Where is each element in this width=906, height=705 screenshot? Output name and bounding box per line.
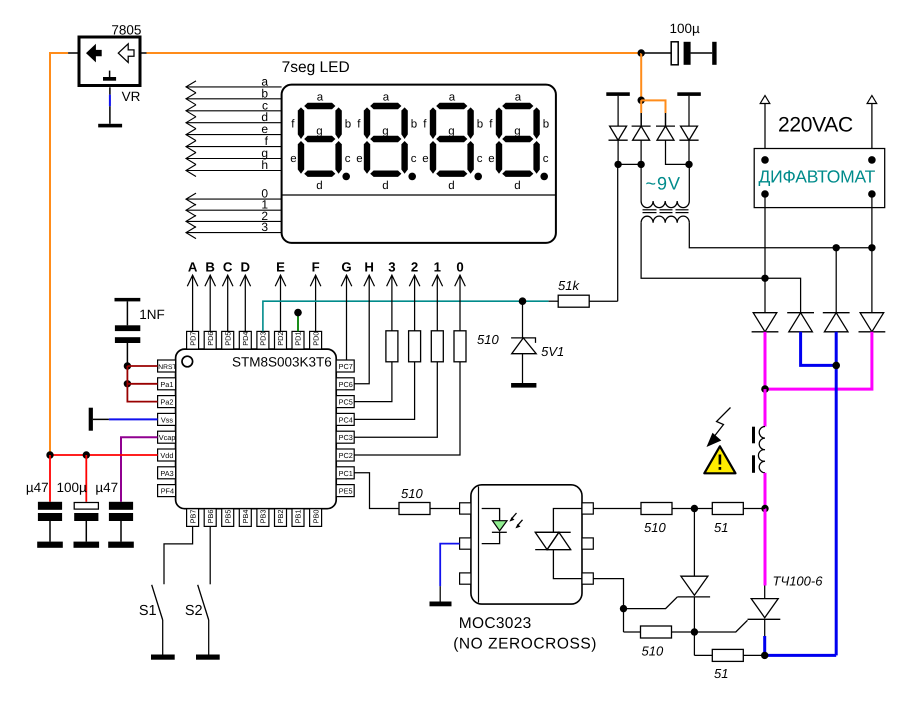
ground below S2 bbox=[196, 655, 220, 660]
wire: Vdd red rail bbox=[50, 454, 158, 456]
node: Vdd junction at C2 bbox=[46, 451, 53, 458]
svg-text:1: 1 bbox=[434, 260, 441, 275]
svg-text:100µ: 100µ bbox=[670, 21, 701, 36]
svg-text:51: 51 bbox=[714, 520, 728, 535]
rail terminal bar above D1 bbox=[606, 92, 630, 96]
node: blue junction bbox=[832, 362, 840, 370]
resistor R4 510 (net 0) bbox=[354, 275, 466, 455]
svg-text:PB0: PB0 bbox=[311, 510, 320, 524]
wire: orange VR output rail bbox=[140, 52, 641, 54]
svg-text:PB7: PB7 bbox=[188, 510, 197, 524]
capacitor C1 100u bbox=[641, 21, 712, 65]
U2 pin 4 bbox=[582, 573, 593, 584]
svg-text:S1: S1 bbox=[139, 603, 157, 619]
wire: U2 pin4 to VS1 gate node bbox=[593, 579, 623, 609]
node: orange junction above bridge bbox=[638, 97, 645, 104]
svg-text:F: F bbox=[312, 260, 320, 275]
wire: green stub on PD1 bbox=[297, 313, 299, 332]
svg-text:A: A bbox=[188, 260, 198, 275]
svg-text:(NO ZEROCROSS): (NO ZEROCROSS) bbox=[453, 636, 597, 653]
svg-text:STM8S003K3T6: STM8S003K3T6 bbox=[232, 355, 332, 370]
wire: Vcap purple bbox=[121, 437, 158, 502]
svg-text:1NF: 1NF bbox=[139, 307, 165, 322]
svg-text:PD3: PD3 bbox=[259, 332, 268, 346]
wire: net H to PC6 bbox=[354, 275, 369, 384]
thyristor VS1 bbox=[624, 576, 711, 608]
zener diode D9 5V1 bbox=[511, 301, 564, 383]
display digit 4 bbox=[488, 92, 549, 192]
labels a-h on segment wires bbox=[261, 74, 268, 172]
voltage regulator VR 7805 bbox=[79, 23, 141, 105]
svg-text:E: E bbox=[276, 260, 285, 275]
svg-text:Vss: Vss bbox=[161, 415, 174, 424]
wires: nets A-F to PD pins bbox=[193, 275, 316, 331]
wire: VR ground with blue segment bbox=[109, 87, 111, 124]
display digit 2 bbox=[356, 92, 417, 192]
ground below D9 bbox=[511, 383, 536, 388]
U2 internal triac bbox=[535, 509, 582, 579]
U2 labels bbox=[453, 615, 597, 653]
node: VR output junction bbox=[638, 49, 645, 56]
U2 pin 6 bbox=[582, 503, 593, 514]
capacitor C5 1NF bbox=[115, 301, 165, 366]
U1 right pin labels bbox=[339, 362, 353, 496]
svg-text:PD2: PD2 bbox=[276, 332, 285, 346]
svg-text:51: 51 bbox=[714, 666, 728, 681]
ground below C3 bbox=[74, 542, 100, 548]
wire: magenta down to VS2 anode bbox=[763, 509, 766, 599]
capacitor C3 100u electrolytic bbox=[57, 455, 99, 542]
svg-text:H: H bbox=[364, 260, 374, 275]
rail terminal bar above C5 bbox=[115, 298, 141, 302]
svg-text:D: D bbox=[241, 260, 251, 275]
svg-text:PD4: PD4 bbox=[241, 332, 250, 346]
svg-text:Pa2: Pa2 bbox=[160, 398, 173, 407]
svg-text:h: h bbox=[261, 158, 268, 172]
node: R7-R8 junction bbox=[691, 505, 698, 512]
diode D2 bbox=[632, 126, 651, 140]
rail terminal bar right of C1 bbox=[712, 42, 716, 65]
rail terminal bar above D4 bbox=[677, 92, 701, 96]
diode D4 bbox=[679, 126, 698, 140]
node: bridge AC2 dot bbox=[685, 161, 692, 168]
svg-text:~9V: ~9V bbox=[646, 174, 682, 194]
diode D1 bbox=[609, 126, 628, 140]
svg-text:ДИФАВТОМАТ: ДИФАВТОМАТ bbox=[759, 167, 876, 187]
wire: PB6 to S2 bbox=[209, 526, 211, 584]
ground below C2 bbox=[37, 542, 63, 548]
wire: bar to D4 bbox=[688, 96, 690, 126]
resistor R7 510 bbox=[641, 503, 694, 536]
circuit breaker box DIFAVTOMAT bbox=[754, 149, 885, 208]
svg-text:PB1: PB1 bbox=[294, 510, 303, 524]
wire: AC2 to transformer bbox=[688, 164, 690, 201]
switch S2 bbox=[185, 585, 209, 655]
U2 pin 2 bbox=[460, 538, 471, 549]
resistor R8 51 bbox=[694, 503, 765, 536]
capacitor C4 u47 bbox=[95, 480, 133, 542]
resistor R1 510 (net 3) bbox=[354, 275, 398, 401]
svg-text:B: B bbox=[205, 260, 215, 275]
wire: magenta D5 down bbox=[764, 332, 767, 389]
wire: T1 primary right down bbox=[689, 223, 872, 248]
svg-text:PD0: PD0 bbox=[311, 332, 320, 346]
node: magenta junction bbox=[761, 385, 769, 393]
display digit 3 bbox=[422, 92, 483, 192]
svg-text:PC3: PC3 bbox=[339, 433, 353, 442]
svg-text:510: 510 bbox=[401, 486, 423, 501]
wire: magenta to inductor bbox=[764, 389, 767, 426]
svg-text:PD1: PD1 bbox=[294, 332, 303, 346]
wire: L to D5 bbox=[764, 278, 766, 312]
node: Pa1 junction bbox=[124, 380, 131, 387]
U2 pin 3 bbox=[460, 573, 471, 584]
node: PD1 test point dot bbox=[294, 309, 302, 317]
svg-text:µ47: µ47 bbox=[26, 480, 49, 495]
svg-text:5V1: 5V1 bbox=[541, 344, 564, 359]
svg-text:PB3: PB3 bbox=[259, 510, 268, 524]
inductor L1 bbox=[758, 427, 765, 473]
U2 pin 1 bbox=[460, 503, 471, 514]
wire: breaker L down bbox=[764, 194, 766, 278]
transformer T1 primary winding 220V bbox=[641, 216, 689, 223]
U1 top pin labels bbox=[188, 332, 320, 346]
display segment input wires a-h bbox=[186, 81, 282, 177]
node: VS1 cathode / VS2 gate node bbox=[691, 628, 698, 635]
wire: row1 to D7 bbox=[835, 248, 837, 313]
wire: blue D6 link bbox=[801, 332, 837, 366]
node: teal net junction at zener bbox=[519, 297, 527, 305]
diode D6 bbox=[787, 313, 814, 332]
node: bridge AC1 dots bbox=[614, 161, 621, 168]
wire: VS2 cathode blue bbox=[764, 619, 766, 655]
thyristor VS2 TCh100-6 bbox=[748, 574, 824, 620]
microcontroller U1 STM8S003K3T6 body bbox=[176, 349, 337, 509]
ground below S1 bbox=[151, 655, 175, 660]
wire: dark red NRST/Pa1/Pa2 bbox=[127, 366, 157, 402]
svg-text:PD5: PD5 bbox=[223, 332, 232, 346]
svg-text:PA3: PA3 bbox=[160, 469, 173, 478]
display digit 1 bbox=[290, 92, 351, 192]
svg-text:PC5: PC5 bbox=[339, 398, 353, 407]
wire: U2 pin6 to R7 bbox=[593, 508, 641, 510]
wire: blue D7 down long bbox=[835, 332, 838, 656]
svg-text:G: G bbox=[341, 260, 351, 275]
inductor L1 core bars bbox=[752, 427, 755, 473]
svg-text:100µ: 100µ bbox=[57, 480, 88, 495]
node: VS1 gate node bbox=[620, 605, 627, 612]
svg-text:PC2: PC2 bbox=[339, 451, 353, 460]
svg-text:3: 3 bbox=[388, 260, 395, 275]
transformer T1 core bbox=[643, 210, 689, 213]
svg-text:PC4: PC4 bbox=[339, 415, 353, 424]
node: magenta junction at R8 bbox=[761, 505, 768, 512]
lightning strike symbol bbox=[707, 408, 731, 448]
svg-text:µ47: µ47 bbox=[95, 480, 118, 495]
svg-text:PE5: PE5 bbox=[339, 487, 353, 496]
wire: bar to D1 bbox=[617, 96, 619, 126]
resistor R6 510 (PC1 to MOC) bbox=[399, 486, 460, 515]
U1 left pin labels bbox=[158, 364, 176, 496]
svg-text:510: 510 bbox=[642, 644, 664, 659]
diode D5 bbox=[752, 313, 779, 332]
svg-text:MOC3023: MOC3023 bbox=[459, 615, 532, 632]
svg-text:PB2: PB2 bbox=[276, 510, 285, 524]
svg-text:VR: VR bbox=[122, 89, 141, 104]
resistor R2 510 (net 2) bbox=[354, 275, 420, 419]
mains terminal arrow N bbox=[867, 96, 877, 160]
svg-text:510: 510 bbox=[644, 520, 666, 535]
svg-text:PD6: PD6 bbox=[206, 332, 215, 346]
svg-text:2: 2 bbox=[411, 260, 418, 275]
wire: orange to diode D2 bbox=[640, 100, 642, 126]
diode D8 bbox=[859, 313, 886, 332]
svg-text:3: 3 bbox=[261, 220, 268, 234]
wire: magenta D8 link bbox=[765, 332, 872, 389]
resistor R3 510 (net 1) bbox=[354, 275, 443, 437]
ground below C4 bbox=[108, 542, 134, 548]
svg-text:Pa1: Pa1 bbox=[160, 380, 173, 389]
svg-text:7805: 7805 bbox=[111, 23, 141, 38]
svg-text:PC6: PC6 bbox=[339, 380, 353, 389]
wire: PC1 to R6 bbox=[354, 473, 399, 509]
U2 pin 5 bbox=[582, 538, 593, 549]
net labels A-H 3-0 above U1 bbox=[188, 260, 464, 275]
diode D7 bbox=[823, 313, 850, 332]
svg-text:PD7: PD7 bbox=[188, 332, 197, 346]
wire: PB7 to S1 bbox=[164, 526, 193, 584]
svg-text:PF4: PF4 bbox=[161, 487, 174, 496]
mains terminal arrow L bbox=[760, 96, 770, 160]
wire: orange to diode D3 bbox=[641, 100, 665, 126]
svg-text:PC1: PC1 bbox=[339, 469, 353, 478]
7-segment LED display module bbox=[282, 59, 556, 243]
U1 right pins PC7..PE5 bbox=[336, 360, 354, 497]
svg-text:0: 0 bbox=[456, 260, 463, 275]
wire: teal net from PD3 bbox=[263, 301, 549, 331]
wire: U2 pin2 blue to ground bbox=[440, 544, 459, 602]
svg-text:PB4: PB4 bbox=[241, 510, 250, 524]
svg-text:PB5: PB5 bbox=[223, 510, 232, 524]
wire: Vss blue bbox=[93, 418, 158, 420]
wire: gate node to R9 bbox=[623, 609, 625, 632]
svg-text:PC7: PC7 bbox=[339, 362, 353, 371]
wire: VS2 gate bbox=[694, 620, 747, 632]
warning triangle bbox=[704, 446, 735, 473]
U2 internal LED bbox=[482, 509, 507, 544]
wire: orange drop to bridge bbox=[640, 53, 642, 100]
svg-text:PB6: PB6 bbox=[206, 510, 215, 524]
capacitor C2 u47 bbox=[26, 455, 62, 542]
node: VS2 cathode junction bbox=[761, 652, 768, 659]
svg-text:ТЧ100-6: ТЧ100-6 bbox=[773, 574, 824, 589]
wire: VS1 cathode down bbox=[693, 597, 695, 656]
node: N row1 junctions bbox=[833, 244, 840, 251]
resistor R9 510 bbox=[624, 626, 695, 659]
svg-text:S2: S2 bbox=[185, 603, 203, 619]
wire: AC1 to transformer bbox=[640, 164, 642, 201]
wire: row2 to D6 bbox=[765, 278, 801, 312]
U2 LED light arrows bbox=[509, 513, 522, 528]
svg-text:C: C bbox=[223, 260, 233, 275]
svg-text:510: 510 bbox=[477, 332, 499, 347]
svg-text:51k: 51k bbox=[558, 278, 580, 293]
resistor R5 51k bbox=[549, 278, 618, 307]
wire: T1 primary left down bbox=[641, 223, 765, 278]
wires: bridge lower joins bbox=[618, 140, 689, 164]
wire: magenta inductor to VS2 bbox=[764, 473, 767, 509]
svg-text:Vcap: Vcap bbox=[159, 433, 176, 442]
U1 top pins PD7-PD0 bbox=[187, 331, 322, 349]
net arrows up bbox=[187, 275, 465, 286]
display digit-select input wires 0-3 bbox=[186, 193, 282, 239]
wire: 51k up to bridge AC node bbox=[617, 164, 619, 301]
svg-text:NRST: NRST bbox=[158, 364, 176, 371]
labels 0-3 on digit wires bbox=[261, 187, 268, 235]
wire: R7 node down to VS1 anode bbox=[693, 509, 695, 577]
node: Vdd junction at C3 bbox=[83, 451, 90, 458]
transformer T1 secondary winding 9V bbox=[641, 201, 689, 208]
node: NRST junction bbox=[124, 362, 131, 369]
wire: blue bottom link to VS2 cathode bbox=[765, 654, 837, 657]
wire: orange input to VR left bbox=[50, 53, 79, 455]
optocoupler U2 MOC3023 body bbox=[471, 485, 582, 604]
diode D3 bbox=[656, 126, 675, 140]
resistor R10 51 bbox=[694, 649, 764, 681]
ground below U2 pin2 bbox=[430, 602, 452, 607]
wire: breaker N down bbox=[871, 194, 873, 313]
wire: net G to PC7 bbox=[346, 275, 348, 360]
svg-text:220VAC: 220VAC bbox=[778, 114, 853, 137]
svg-text:7seg LED: 7seg LED bbox=[282, 59, 350, 76]
U1 bottom pin labels bbox=[188, 510, 320, 524]
ground below VR bbox=[98, 124, 122, 128]
rail terminal bar at Vss bbox=[89, 408, 93, 431]
U1 bottom pins PB7-PB0 bbox=[187, 509, 322, 527]
node: L row2 junction bbox=[761, 275, 768, 282]
U1 left pins NRST..PF4 bbox=[158, 360, 176, 497]
switch S1 bbox=[139, 585, 163, 655]
svg-text:Vdd: Vdd bbox=[160, 451, 173, 460]
